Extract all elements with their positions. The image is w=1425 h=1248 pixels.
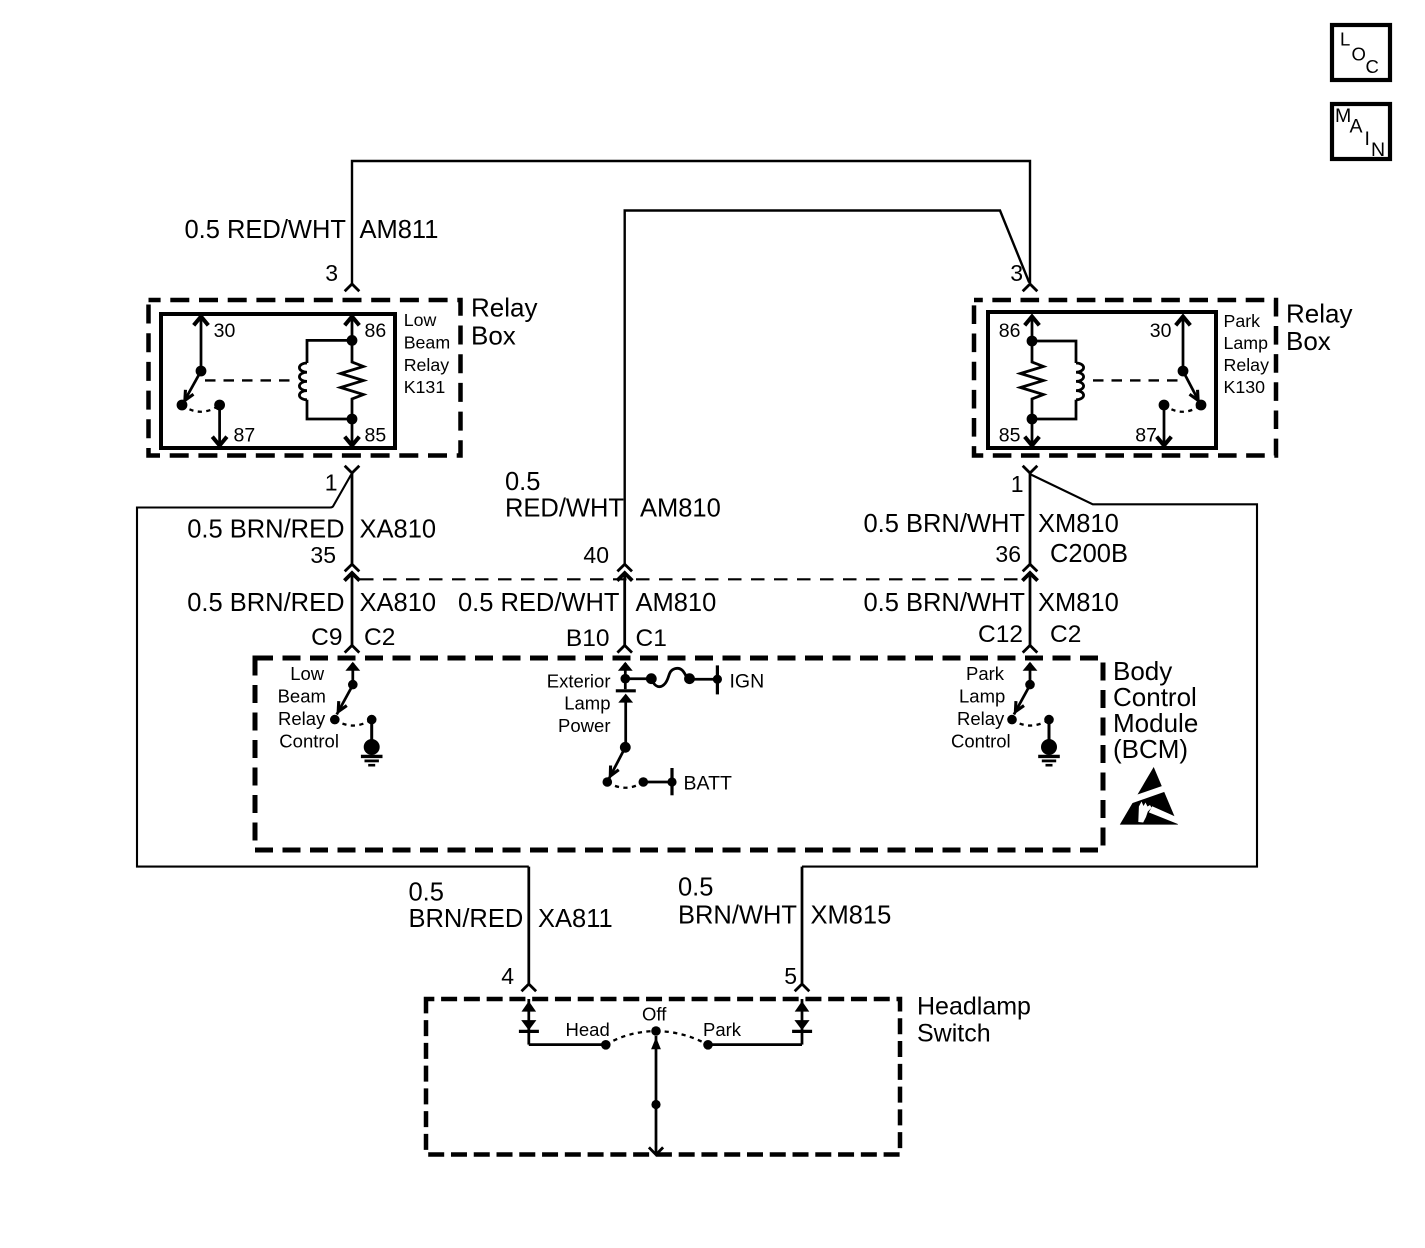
- svg-text:I: I: [1365, 128, 1370, 150]
- svg-text:AM810: AM810: [636, 589, 717, 617]
- svg-text:40: 40: [583, 542, 609, 568]
- svg-text:Switch: Switch: [917, 1020, 991, 1048]
- svg-text:87: 87: [1135, 425, 1157, 447]
- svg-text:C200B: C200B: [1050, 540, 1128, 568]
- svg-text:Relay: Relay: [957, 708, 1005, 729]
- svg-text:BRN/RED: BRN/RED: [409, 905, 524, 933]
- svg-text:Head: Head: [566, 1019, 610, 1040]
- svg-text:85: 85: [365, 425, 387, 447]
- svg-text:C9: C9: [311, 624, 342, 651]
- svg-text:Beam: Beam: [278, 686, 326, 707]
- svg-text:30: 30: [214, 320, 236, 342]
- svg-text:XM815: XM815: [811, 902, 892, 930]
- svg-text:N: N: [1371, 139, 1385, 161]
- svg-text:BRN/WHT: BRN/WHT: [678, 902, 797, 930]
- svg-text:Headlamp: Headlamp: [917, 993, 1031, 1021]
- svg-text:Relay: Relay: [471, 293, 537, 323]
- svg-text:0.5: 0.5: [678, 874, 713, 902]
- svg-text:Box: Box: [471, 321, 516, 351]
- svg-text:A: A: [1350, 115, 1363, 137]
- svg-text:Low: Low: [290, 663, 325, 684]
- svg-text:85: 85: [999, 425, 1021, 447]
- svg-text:Control: Control: [951, 730, 1011, 751]
- svg-text:3: 3: [1010, 260, 1023, 286]
- svg-text:Power: Power: [558, 715, 610, 736]
- svg-text:XA811: XA811: [538, 905, 613, 933]
- svg-text:Exterior: Exterior: [547, 671, 611, 692]
- svg-text:XM810: XM810: [1038, 589, 1119, 617]
- svg-text:C12: C12: [978, 621, 1023, 648]
- svg-text:AM811: AM811: [360, 216, 439, 244]
- svg-text:BATT: BATT: [684, 773, 732, 795]
- svg-text:O: O: [1352, 44, 1366, 65]
- svg-text:0.5 BRN/RED: 0.5 BRN/RED: [187, 516, 344, 544]
- svg-text:(BCM): (BCM): [1113, 734, 1188, 764]
- svg-text:1: 1: [325, 470, 338, 496]
- svg-text:AM810: AM810: [640, 495, 721, 523]
- svg-text:86: 86: [365, 320, 387, 342]
- svg-text:XM810: XM810: [1038, 510, 1119, 538]
- svg-text:Relay: Relay: [404, 355, 450, 375]
- svg-text:IGN: IGN: [730, 671, 765, 693]
- svg-text:Park: Park: [703, 1019, 742, 1040]
- svg-text:35: 35: [310, 542, 336, 568]
- svg-text:0.5: 0.5: [505, 468, 540, 496]
- svg-text:C1: C1: [636, 625, 667, 652]
- svg-text:87: 87: [234, 425, 256, 447]
- svg-text:B10: B10: [566, 625, 610, 652]
- svg-text:Park: Park: [1224, 311, 1261, 331]
- svg-text:Relay: Relay: [1286, 299, 1352, 329]
- svg-text:Off: Off: [642, 1004, 667, 1025]
- svg-text:K130: K130: [1224, 377, 1266, 397]
- svg-text:C: C: [1366, 56, 1379, 77]
- svg-text:0.5 BRN/WHT: 0.5 BRN/WHT: [863, 589, 1025, 617]
- svg-text:0.5 BRN/WHT: 0.5 BRN/WHT: [863, 510, 1025, 538]
- svg-text:0.5 BRN/RED: 0.5 BRN/RED: [187, 589, 344, 617]
- svg-text:Beam: Beam: [404, 332, 450, 352]
- svg-text:Relay: Relay: [1224, 355, 1270, 375]
- svg-text:1: 1: [1011, 471, 1024, 497]
- svg-text:0.5: 0.5: [409, 879, 444, 907]
- svg-text:5: 5: [784, 963, 797, 989]
- svg-text:K131: K131: [404, 377, 446, 397]
- svg-text:Lamp: Lamp: [564, 693, 610, 714]
- svg-text:3: 3: [325, 260, 338, 286]
- svg-text:Control: Control: [279, 730, 339, 751]
- svg-text:Box: Box: [1286, 326, 1331, 356]
- svg-text:30: 30: [1150, 320, 1172, 342]
- svg-text:C2: C2: [364, 624, 395, 651]
- svg-text:Low: Low: [404, 310, 437, 330]
- svg-text:C2: C2: [1050, 621, 1081, 648]
- svg-text:XA810: XA810: [360, 516, 437, 544]
- svg-text:RED/WHT: RED/WHT: [505, 495, 624, 523]
- svg-text:Park: Park: [966, 663, 1005, 684]
- svg-text:Lamp: Lamp: [959, 686, 1005, 707]
- svg-text:86: 86: [999, 320, 1021, 342]
- svg-text:36: 36: [995, 541, 1021, 567]
- svg-text:Relay: Relay: [278, 708, 326, 729]
- svg-text:Lamp: Lamp: [1224, 333, 1269, 353]
- svg-text:0.5 RED/WHT: 0.5 RED/WHT: [184, 216, 346, 244]
- svg-text:4: 4: [501, 963, 514, 989]
- svg-text:XA810: XA810: [360, 589, 437, 617]
- svg-text:0.5 RED/WHT: 0.5 RED/WHT: [458, 589, 620, 617]
- svg-text:L: L: [1340, 29, 1350, 50]
